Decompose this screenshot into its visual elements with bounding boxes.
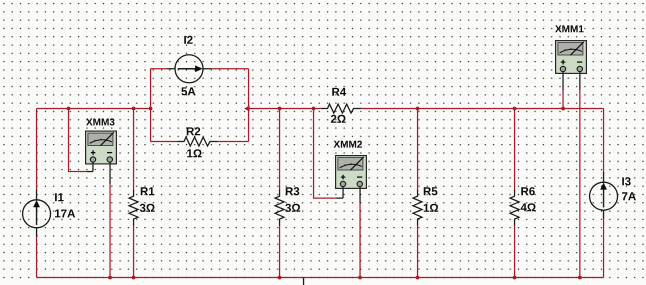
label I3: [622, 177, 630, 185]
ground: [303, 278, 305, 285]
wire I3 top vertical: [603, 109, 605, 174]
value I2 5A: [181, 87, 195, 95]
value R3 3 ohm: [285, 204, 300, 212]
value R1 3 ohm: [140, 204, 155, 212]
label I2: [184, 36, 192, 44]
wire XMM1 minus lead: [579, 89, 581, 278]
multimeter XMM1: [556, 41, 587, 90]
junction XMM2 minus / bottom bus: [358, 276, 362, 280]
junction R6 top: [513, 107, 517, 111]
value I1 17A: [55, 209, 75, 217]
junction R5 top: [416, 107, 420, 111]
wire R5 branch top: [417, 109, 419, 190]
resistor R1: [129, 190, 138, 226]
wire XMM1 plus lead: [562, 89, 564, 109]
junction R1 bottom: [132, 276, 136, 280]
current source I3: [590, 172, 618, 219]
resistor R6: [510, 190, 519, 226]
wire I2 loop left vertical: [150, 69, 152, 142]
multimeter XMM3: [86, 131, 117, 183]
wire bottom bus: [37, 277, 604, 279]
value R5 1 ohm: [424, 204, 438, 212]
junction I2 loop right (arrow): [244, 105, 249, 111]
resistor R5: [413, 190, 422, 226]
wire R2 row right: [218, 141, 249, 143]
junction R3 bottom: [278, 276, 282, 280]
resistor R3: [275, 190, 284, 226]
label R1: [141, 187, 155, 195]
wire R1 branch bottom: [133, 226, 135, 278]
wire XMM3 plus lead: [69, 109, 87, 172]
junction XMM2 plus / top wire: [312, 107, 316, 111]
resistor R2: [178, 137, 218, 146]
junction XMM3 plus / top wire: [67, 107, 71, 111]
label XMM3: [86, 118, 114, 125]
wire R5 branch bottom: [417, 226, 419, 278]
wire I1 bottom vertical: [36, 236, 38, 278]
label XMM2: [334, 141, 362, 148]
junction XMM3 minus / bottom bus: [108, 276, 112, 280]
label R3: [286, 187, 300, 195]
wire XMM2 plus lead: [314, 109, 337, 199]
wire R4 to I3 corner: [361, 108, 604, 110]
label R4: [332, 88, 346, 96]
wire R6 branch top: [514, 109, 516, 190]
wire I1 top vertical: [36, 109, 38, 191]
label R2: [187, 127, 200, 135]
label I1: [55, 193, 64, 201]
current source I2: [167, 55, 211, 83]
multimeter XMM2: [336, 156, 367, 203]
wire node B to R4: [249, 108, 321, 110]
wire XMM3 minus lead: [109, 183, 111, 278]
wire I2 loop right vertical: [248, 69, 250, 142]
junction R5 bottom: [416, 276, 420, 280]
junction R3 top: [278, 107, 282, 111]
value R6 4 ohm: [521, 203, 536, 211]
value I3 7A: [622, 192, 636, 200]
wire I3 bottom vertical: [603, 219, 605, 278]
wire R6 branch bottom: [514, 226, 516, 278]
wire I2 row left: [151, 68, 168, 70]
current source I1: [23, 190, 51, 237]
label R5: [424, 187, 438, 195]
junction XMM1 minus / bottom bus: [578, 276, 582, 280]
wire XMM2 minus lead: [359, 202, 361, 278]
wire R3 branch top: [279, 109, 281, 190]
wire R2 row left: [151, 141, 178, 143]
wire top-left horizontal: [37, 108, 151, 110]
resistor R4: [321, 104, 361, 113]
junction R1 top: [132, 107, 136, 111]
junction R6 bottom: [513, 276, 517, 280]
label R6: [521, 187, 535, 195]
junction XMM1 plus / top wire: [561, 107, 565, 111]
wire R3 branch bottom: [279, 226, 281, 278]
value R2 1 ohm: [187, 149, 201, 157]
label XMM1: [555, 25, 584, 32]
wire I2 row right: [211, 68, 249, 70]
value R4 2 ohm: [331, 115, 346, 123]
wire R1 branch top: [133, 109, 135, 190]
junction I2 loop left: [149, 107, 153, 111]
